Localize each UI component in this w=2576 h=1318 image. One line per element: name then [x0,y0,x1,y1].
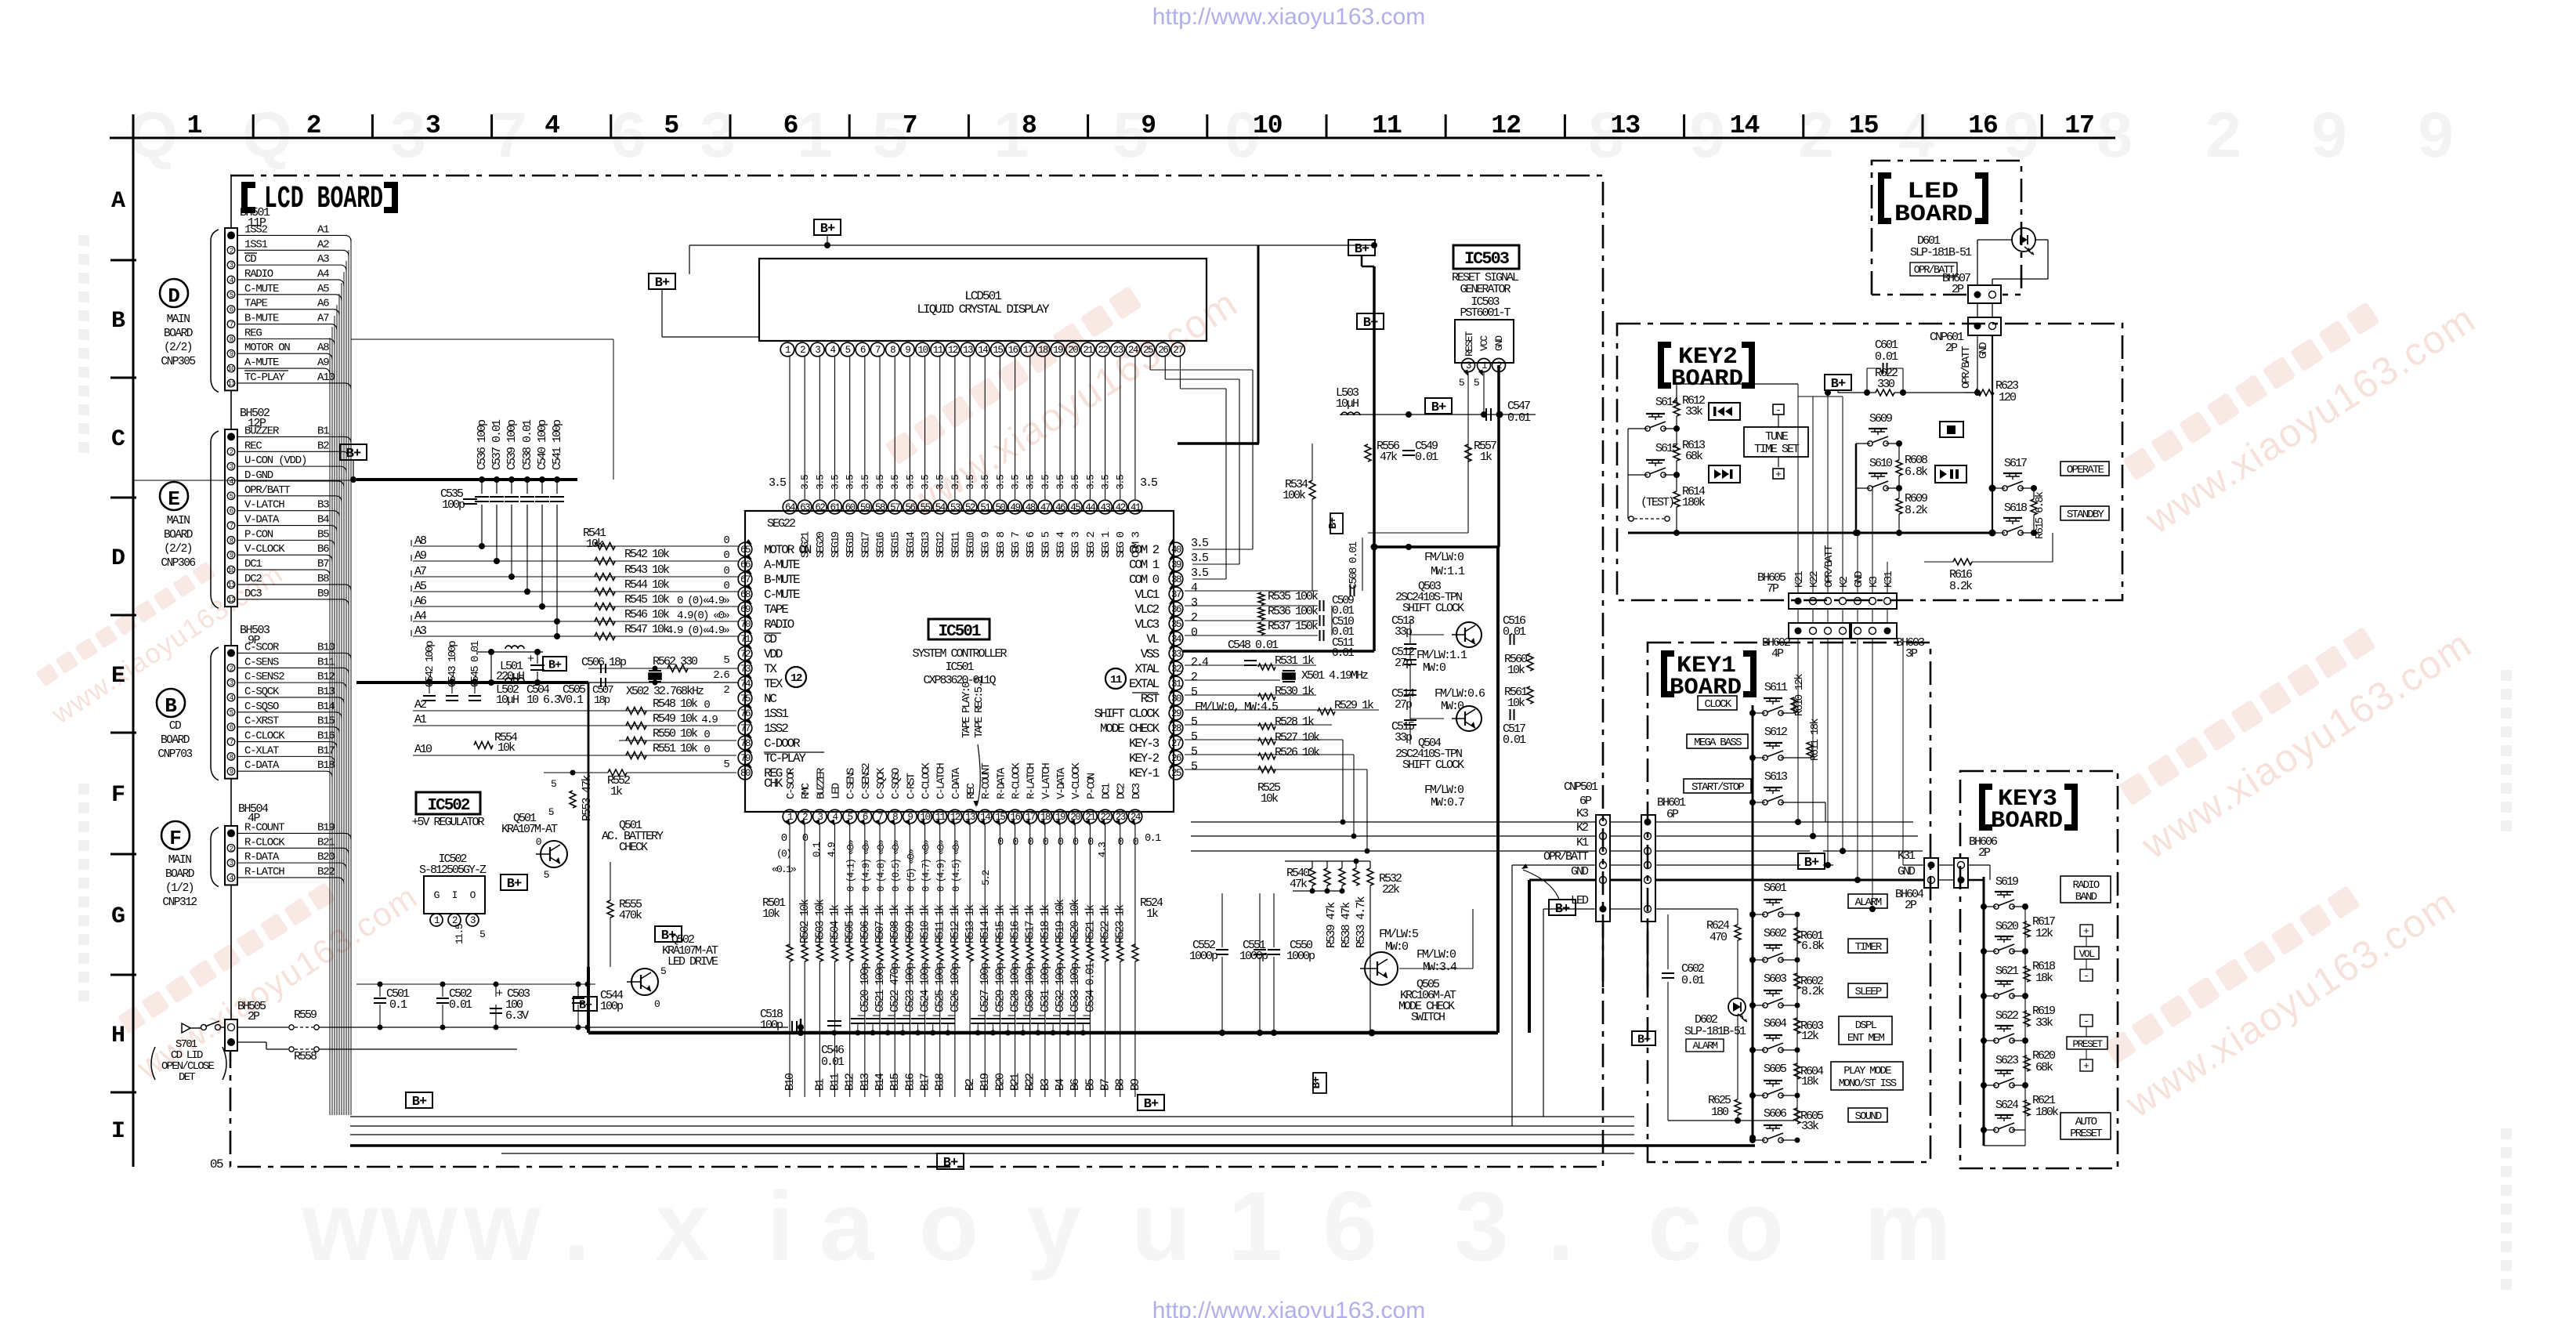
svg-text:REC: REC [965,783,978,799]
svg-text:100p: 100p [600,1000,623,1013]
svg-text:3.5: 3.5 [845,475,856,490]
svg-text:CD: CD [169,720,181,733]
svg-text:I: I [111,1118,125,1145]
svg-text:a: a [819,1172,875,1281]
svg-text:6P: 6P [1666,808,1679,821]
svg-text:60: 60 [845,502,856,513]
svg-text:12: 12 [1491,111,1521,140]
svg-text:PRESET: PRESET [2070,1128,2102,1140]
svg-text:C504: C504 [526,683,550,697]
svg-text:S-812505GY-Z: S-812505GY-Z [419,864,487,877]
svg-text:ENT MEM: ENT MEM [1847,1032,1885,1045]
B+ box key2 [1825,375,1851,390]
icon minus box tune [1773,404,1784,415]
connector BH502 [225,429,237,606]
svg-text:S623: S623 [1995,1054,2019,1067]
inductor L502 on bus [505,678,524,681]
svg-text:C531 100p: C531 100p [1040,963,1052,1012]
svg-text:R545 10k: R545 10k [624,593,670,606]
svg-text:3.5: 3.5 [1069,475,1081,490]
svg-text:7: 7 [230,523,233,530]
svg-text:3: 3 [390,100,426,171]
svg-text:R527 10k: R527 10k [1275,731,1320,744]
svg-text:S604: S604 [1764,1017,1787,1030]
svg-text:7P: 7P [1767,582,1779,596]
svg-text:SEG 8: SEG 8 [995,531,1008,558]
svg-text:6P: 6P [1579,795,1592,808]
svg-text:6: 6 [860,345,866,356]
wire OPR/BATT riser [1511,865,1513,1126]
svg-text:13: 13 [963,345,973,356]
svg-text:+: + [2083,1060,2089,1072]
svg-text:SHIFT CLOCK: SHIFT CLOCK [1402,759,1464,772]
svg-text:66: 66 [740,559,751,570]
svg-text:MAIN: MAIN [167,515,190,527]
svg-text:20: 20 [1068,345,1078,356]
svg-text:10: 10 [228,365,235,373]
wire BH504 pin3 R-DATA [237,862,340,864]
svg-text:40: 40 [1171,545,1181,556]
svg-text:http://www.xiaoyu163.com: http://www.xiaoyu163.com [1152,4,1426,30]
svg-text:3.5: 3.5 [1191,537,1209,550]
svg-text:TAPE REC:5.2: TAPE REC:5.2 [973,677,986,738]
svg-text:R518 1k: R518 1k [1040,905,1052,943]
wire R532 column to bus [1369,885,1371,1033]
svg-text:5: 5 [1459,377,1464,389]
svg-text:C-LATCH: C-LATCH [935,763,948,799]
svg-text:68k: 68k [2035,1061,2053,1074]
svg-text:R538 47k: R538 47k [1340,902,1353,948]
svg-text:i: i [767,1172,794,1281]
svg-text:3.5: 3.5 [935,475,946,490]
svg-text:26: 26 [1171,753,1181,764]
AUTO PRESET boxed [2060,1113,2111,1139]
svg-text:B+: B+ [1804,856,1819,871]
svg-text:FM/LW:0, MW:4.5: FM/LW:0, MW:4.5 [1195,701,1279,714]
svg-text:R504 1k: R504 1k [830,905,842,943]
frame row ticks [110,259,136,262]
svg-text:3.5: 3.5 [830,475,841,490]
svg-text:A7: A7 [414,565,426,578]
svg-text:2P: 2P [1945,342,1958,355]
wire BH504 pin4 R-LATCH [237,877,338,878]
svg-text:A-MUTE: A-MUTE [764,558,800,572]
frame ruler ticks [252,114,255,138]
svg-text:31: 31 [1171,679,1181,690]
svg-text:R528 1k: R528 1k [1275,715,1315,729]
svg-text:SEG19: SEG19 [830,531,842,558]
svg-text:3.5: 3.5 [1115,475,1127,490]
icon prev track [1709,403,1740,420]
svg-text:B4: B4 [317,514,329,527]
wire right column S601-S606 [1796,914,1798,1121]
svg-text:C532 100p: C532 100p [1055,963,1067,1012]
svg-text:C-XRST: C-XRST [244,715,279,728]
svg-text:X502 32.768kHz: X502 32.768kHz [626,685,704,698]
svg-text:S601: S601 [1764,882,1787,895]
svg-text:68: 68 [740,589,751,600]
svg-text:5: 5 [1474,377,1479,389]
svg-text:(TEST): (TEST) [1641,496,1673,509]
svg-text:KEY-3: KEY-3 [1129,737,1160,751]
ALARM boxed label D602 [1686,1039,1724,1052]
svg-text:180k: 180k [1682,496,1706,509]
svg-text:2.6: 2.6 [713,669,729,682]
svg-text:C534 0.01: C534 0.01 [1084,963,1097,1012]
wire BH503 pin6 C-XRST [237,726,333,728]
B+ box above C508 rotated [1330,513,1343,534]
svg-text:A3: A3 [317,253,329,266]
B+ box right of bank [1138,1095,1164,1110]
wires resistor cluster top [1285,860,1370,862]
VOL group [2080,925,2093,936]
svg-text:S610: S610 [1869,457,1893,470]
svg-text:K2: K2 [1576,821,1588,835]
PRESET group [2080,1015,2093,1027]
wires key2 left cluster [1628,428,1648,429]
LED BOARD header [1881,176,1891,221]
svg-text:TX: TX [764,662,777,676]
svg-text:1000p: 1000p [1286,950,1315,963]
svg-text:KEY-1: KEY-1 [1129,766,1160,780]
svg-text:BOARD: BOARD [161,734,190,747]
svg-text:CHK: CHK [764,777,783,791]
svg-text:63: 63 [800,502,810,513]
wire thick vertical x1912 [1496,547,1500,1033]
svg-text:R551 10k: R551 10k [653,742,698,755]
svg-text:NC: NC [764,692,776,706]
svg-text:R542 10k: R542 10k [624,548,670,561]
svg-text:38: 38 [1171,574,1181,585]
svg-text:3: 3 [815,345,820,356]
svg-text:V-DATA: V-DATA [1055,767,1068,799]
KEY3 BOARD header [1982,787,1992,827]
wire BH501 pin7 B-MUTE [237,324,331,325]
wires S611-S613 [1753,712,1765,714]
resistor zigzags under IC501 [787,944,793,961]
svg-text:1: 1 [187,111,202,140]
svg-text:5: 5 [230,493,233,501]
svg-text:B+: B+ [1355,242,1369,257]
svg-text:REG: REG [244,327,262,339]
LED BOARD outline [1872,161,2021,295]
svg-text:29: 29 [1171,708,1181,719]
connector BH503 [225,646,237,779]
svg-text:9: 9 [2418,100,2454,171]
overline RST pin30 [1132,692,1158,693]
wire BH502 pin5 OPR/BATT [237,495,335,497]
wire OPR/BATT thick bus [356,478,577,481]
wires K lines continue right of BH601 [1655,821,1913,823]
svg-text:G: G [111,903,125,930]
svg-text:EXTAL: EXTAL [1129,677,1160,691]
wire BH503 pin2 C-SENS [237,667,342,668]
IC501 bottom pin wires and values [785,820,790,827]
svg-text:1SS2: 1SS2 [764,722,788,736]
svg-text:SEG 0: SEG 0 [1115,531,1127,558]
svg-text:SOUND: SOUND [1854,1110,1881,1123]
wire BH501 pin8 REG [237,338,328,339]
wire BH503 pin3 C-SENS2 [237,682,340,683]
svg-text:C-CLOCK: C-CLOCK [921,762,933,799]
svg-text:R507 1k: R507 1k [874,905,887,943]
wires BH607 to CNP601 [1977,303,1978,317]
svg-text:0.01: 0.01 [1681,974,1705,987]
wire BH501 pin10 A-MUTE [237,368,324,369]
wire BH501 pin9 MOTOR ON [237,353,326,354]
svg-text:R543 10k: R543 10k [624,563,670,577]
svg-text:2: 2 [1191,611,1197,625]
svg-text:-: - [1775,404,1782,416]
svg-text:0 (0.5) «0»: 0 (0.5) «0» [891,840,902,892]
svg-text:-: - [2083,1016,2089,1027]
svg-text:S613: S613 [1764,770,1788,784]
icon play pause [1935,465,1966,483]
svg-text:OPR/BATT: OPR/BATT [1960,346,1973,389]
wire right column key3 [2024,907,2026,1130]
svg-text:25: 25 [1171,768,1181,779]
svg-text:FM/LW:0: FM/LW:0 [1416,948,1456,961]
svg-text:59: 59 [860,502,870,513]
svg-text:48: 48 [1026,502,1036,513]
wire LED riser [1543,909,1544,1117]
svg-text:4.9(0) «0»: 4.9(0) «0» [677,610,729,622]
B+ rotated right side [1313,1073,1326,1093]
svg-text:R-COUNT: R-COUNT [244,821,284,834]
svg-text:C536 100p: C536 100p [476,420,489,470]
svg-text:C538 0.01: C538 0.01 [521,419,534,470]
wire thick vertical x751 [587,967,590,1033]
B+ box near IC503 pins [1425,398,1452,414]
svg-text:MAIN: MAIN [168,854,192,867]
svg-text:0 (4.5) «0»: 0 (4.5) «0» [951,840,962,892]
svg-text:AUTO: AUTO [2075,1116,2097,1128]
svg-text:33p: 33p [1395,731,1412,744]
svg-text:2P: 2P [1905,899,1917,912]
svg-text:MOTOR ON: MOTOR ON [244,342,290,354]
connectors BH602 BH603 [1789,623,1850,639]
transistor Q503 [1456,622,1482,647]
B+ box near C544 [573,997,597,1011]
svg-text:IC501: IC501 [938,623,980,641]
svg-text:3: 3 [1454,1172,1509,1281]
svg-text:1000p: 1000p [1239,950,1268,963]
svg-text:C527 100p: C527 100p [979,963,992,1012]
svg-text:35: 35 [1171,619,1181,630]
svg-text:B+: B+ [820,222,835,237]
svg-text:D: D [168,284,180,308]
svg-text:R515 1k: R515 1k [994,905,1007,943]
svg-text:S611: S611 [1764,681,1788,694]
svg-text:0.1: 0.1 [389,998,407,1012]
TUNE TIME SET box [1744,427,1808,457]
svg-text:47: 47 [1040,502,1051,513]
svg-text:V-LATCH: V-LATCH [1040,763,1053,799]
svg-text:BOARD: BOARD [164,328,193,340]
svg-text:SLP-181B-51: SLP-181B-51 [1910,246,1972,259]
wire key3 bottom [1984,1145,2025,1146]
svg-text:SEG20: SEG20 [815,531,827,558]
svg-text:6.8k: 6.8k [1905,465,1928,479]
wires K3 K2 K1 OPR BATT GND LED [1191,821,1596,823]
svg-text:B-MUTE: B-MUTE [244,313,279,325]
svg-text:VLC2: VLC2 [1134,603,1159,617]
svg-text:15: 15 [993,345,1003,356]
svg-text:10k: 10k [762,907,780,921]
svg-text:LED: LED [830,783,843,799]
svg-text:R505 1k: R505 1k [845,905,857,943]
svg-text:69: 69 [740,604,751,615]
svg-text:22: 22 [1098,345,1109,356]
svg-text:A9: A9 [317,357,329,369]
svg-text:-: - [2083,970,2089,982]
svg-text:C530 100p: C530 100p [1025,963,1037,1012]
svg-text:3.5: 3.5 [950,475,961,490]
svg-text:R521 1k: R521 1k [1084,905,1097,943]
svg-text:6.3V: 6.3V [505,1009,529,1023]
svg-text:19: 19 [1053,345,1063,356]
svg-text:1: 1 [797,100,833,171]
svg-text:R539 47k: R539 47k [1325,902,1338,948]
svg-text:R-LATCH: R-LATCH [244,866,284,878]
svg-text:http://www.xiaoyu163.com: http://www.xiaoyu163.com [1152,1298,1426,1318]
frame top ruler line [110,137,2115,139]
LCD501 pins 1-27 [780,342,794,357]
DSPL ENT MEM boxed [1839,1016,1892,1045]
svg-text:C521 100p: C521 100p [874,963,887,1012]
svg-text:6: 6 [610,100,646,171]
svg-text:U-CON (VDD): U-CON (VDD) [244,454,306,467]
svg-text:4.9: 4.9 [826,842,838,857]
svg-text:C-DOOR: C-DOOR [764,737,801,751]
svg-text:0.01: 0.01 [1875,350,1898,364]
svg-text:CNP306: CNP306 [161,557,195,570]
IC502 boxed designator [416,792,480,814]
wire TX row [588,668,738,669]
wire top B+ to LCD area [661,288,663,337]
svg-text:17: 17 [2064,111,2094,140]
svg-text:4.3: 4.3 [1097,842,1109,857]
svg-text:46: 46 [1055,502,1065,513]
svg-text:3: 3 [425,111,440,140]
svg-text:R611 18k: R611 18k [1809,719,1822,761]
svg-text:SYSTEM CONTROLLER: SYSTEM CONTROLLER [912,647,1007,661]
svg-text:9: 9 [230,768,233,776]
svg-text:4: 4 [230,694,233,702]
svg-text:C533 100p: C533 100p [1069,963,1082,1012]
svg-text:0 (0)«4.9»: 0 (0)«4.9» [677,595,729,607]
svg-text:o: o [1724,1172,1784,1281]
svg-text:A2: A2 [317,238,329,251]
svg-text:R548 10k: R548 10k [653,697,698,711]
KEY2 BOARD outline [1617,324,2122,600]
icon stop [1940,422,1963,437]
wire BH505 to R559 R558 [237,1027,288,1028]
svg-text:45: 45 [1070,502,1080,513]
svg-text:33: 33 [1171,649,1181,660]
wire BH501 pin11 TC-PLAY [237,382,345,384]
svg-text:34: 34 [1171,634,1181,645]
svg-text:32: 32 [1171,664,1181,675]
svg-text:LIQUID CRYSTAL DISPLAY: LIQUID CRYSTAL DISPLAY [917,302,1050,317]
svg-text:57: 57 [890,502,900,513]
TIMER boxed [1848,939,1887,953]
svg-text:DC1: DC1 [244,558,262,570]
svg-text:C524 100p: C524 100p [920,963,932,1012]
svg-text:R510 1k: R510 1k [920,905,932,943]
svg-text:R516 1k: R516 1k [1010,905,1022,943]
svg-text:0: 0 [654,998,660,1010]
svg-text:12: 12 [791,672,802,685]
svg-text:12: 12 [228,596,235,604]
svg-text:TAPE: TAPE [244,298,268,310]
svg-text:y: y [1026,1172,1081,1281]
wire BH501 pin6 TAPE [237,309,333,310]
B+ box near L501 [543,657,566,671]
svg-text:DC2: DC2 [1116,783,1128,799]
svg-text:VCC: VCC [1478,335,1490,351]
svg-text:S602: S602 [1764,927,1786,940]
RADIO BAND boxed [2060,876,2111,903]
OPR/BATT boxed label LED board [1910,263,1957,276]
svg-text:80: 80 [740,768,751,779]
svg-text:B+: B+ [1311,1077,1323,1088]
svg-text:B1: B1 [317,425,329,437]
svg-text:30: 30 [1171,693,1181,704]
svg-text:VOL: VOL [2079,948,2094,960]
icon plus box tune [1773,469,1784,479]
svg-text:4P: 4P [1771,647,1784,661]
svg-text:C529 100p: C529 100p [994,963,1007,1012]
svg-text:470k: 470k [619,909,642,922]
svg-text:0.01: 0.01 [1507,411,1531,425]
svg-text:(2/2): (2/2) [164,342,192,354]
svg-text:76: 76 [740,708,751,719]
svg-text:C-RST: C-RST [905,773,917,799]
svg-text:RADIO: RADIO [2072,879,2099,892]
svg-text:R549 10k: R549 10k [653,712,698,726]
svg-text:BUZZER: BUZZER [815,767,827,799]
svg-text:+: + [1775,469,1782,480]
svg-text:10μH: 10μH [1336,397,1359,411]
svg-text:A2: A2 [414,698,426,712]
svg-text:SEG14: SEG14 [905,531,917,558]
circled E main board [160,482,188,510]
svg-text:10k: 10k [1507,664,1525,677]
IC501 left pins 65-80 [738,542,752,556]
watermark pink diagonal clusters [874,242,1246,527]
svg-text:75: 75 [740,693,751,704]
svg-text:4: 4 [545,111,559,140]
svg-text:BOARD: BOARD [164,529,193,541]
icon next track [1709,465,1740,483]
svg-text:1: 1 [1228,1172,1283,1281]
svg-text:SEG 9: SEG 9 [980,531,993,558]
svg-text:27: 27 [1173,345,1183,356]
svg-text:5: 5 [660,965,666,977]
svg-text:TEX: TEX [764,677,783,691]
svg-text:100p: 100p [442,498,465,512]
svg-text:C508 0.01: C508 0.01 [1348,541,1360,589]
svg-text:RADIO: RADIO [244,268,273,281]
B+ box key1 bottom left [1632,1031,1655,1045]
svg-text:33p: 33p [1395,625,1412,639]
svg-text:3.5: 3.5 [1084,475,1096,490]
transistor Q505 [1365,952,1398,985]
svg-text:12k: 12k [2035,927,2053,940]
svg-text:CNP312: CNP312 [162,896,197,909]
svg-text:43: 43 [1101,502,1111,513]
